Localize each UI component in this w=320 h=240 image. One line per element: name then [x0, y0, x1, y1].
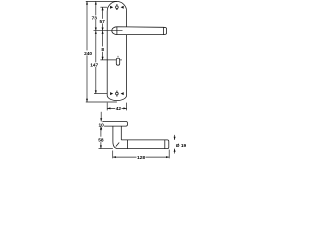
- svg-text:57: 57: [100, 19, 106, 25]
- dimension 57 label: [99, 19, 105, 24]
- top screw hole dimension arrows: [110, 6, 124, 9]
- dimension 128 label: [137, 154, 146, 159]
- neck-grip fillet line: [116, 143, 119, 147]
- dimension 10 line: [100, 112, 102, 131]
- svg-text:58: 58: [98, 137, 104, 143]
- handle centerline: [94, 30, 123, 32]
- dimension 73 line: [95, 1, 97, 30]
- dimension 58 label: [98, 137, 104, 142]
- dimension 73 label: [91, 15, 97, 20]
- keyhole: [116, 56, 119, 65]
- dimension 42 line: [107, 107, 126, 109]
- grip end inner line (bottom view): [164, 140, 166, 149]
- bottom screw hole centerline extension: [94, 93, 107, 95]
- lever neck junction line: [116, 27, 118, 35]
- top screw hole centerline extension: [100, 6, 107, 8]
- dimension 8 label: [101, 46, 105, 51]
- lever end inner line: [163, 27, 165, 34]
- lever grip (bottom view): [113, 140, 169, 149]
- dimension 240 label: [84, 50, 92, 55]
- dimension 147 label: [91, 62, 99, 67]
- keyhole centerline: [100, 59, 116, 61]
- svg-text:8: 8: [101, 47, 104, 53]
- dimension 240 line: [86, 1, 88, 102]
- top screw hole: [116, 4, 119, 10]
- grip left end line: [127, 140, 129, 149]
- neck (bottom view): [112, 126, 114, 141]
- dimension Ø19 line: [174, 135, 176, 154]
- dimension 58 line: [99, 126, 113, 149]
- bottom screw hole: [116, 91, 119, 97]
- svg-text:10: 10: [99, 123, 105, 129]
- lever handle (front view): [112, 27, 167, 35]
- dimension 128 extension lines: [113, 150, 170, 159]
- backplate outline (front view): [107, 1, 126, 100]
- top extension line: [86, 0, 117, 2]
- dimension 42 extension lines: [107, 103, 126, 111]
- svg-text:73: 73: [92, 16, 98, 22]
- dimension 42 label: [115, 106, 121, 111]
- dimension 128 line: [113, 156, 170, 158]
- dimension 147 line: [95, 31, 97, 94]
- svg-text:128: 128: [137, 155, 145, 160]
- svg-text:42: 42: [116, 106, 122, 112]
- svg-text:147: 147: [90, 63, 98, 69]
- dimension 57 line: [102, 7, 104, 31]
- svg-text:240: 240: [84, 51, 92, 57]
- svg-text:Ø 19: Ø 19: [176, 143, 187, 149]
- keyhole centerline right stub: [120, 59, 122, 61]
- lever bottom extension: [99, 148, 113, 150]
- backplate edge (bottom view): [102, 122, 169, 149]
- bottom screw hole dimension arrows: [110, 92, 124, 95]
- dimension 10 label: [98, 122, 104, 127]
- bottom extension line: [86, 101, 117, 103]
- dimension 8 line: [102, 31, 104, 60]
